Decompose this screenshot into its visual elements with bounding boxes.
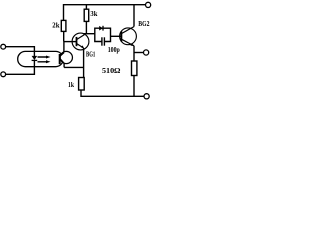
wire 2k bottom lead to BG1 base node	[63, 31, 65, 41]
wire 3k bottom lead	[85, 21, 87, 33]
wire optocoupler emitter lead	[63, 63, 65, 68]
transistor BG1 circle	[72, 33, 89, 50]
optocoupler phototransistor emitter diagonal	[61, 59, 65, 63]
optocoupler body oval	[18, 51, 64, 66]
wire LED cathode down and input bottom lead	[6, 60, 35, 74]
svg-text:1k: 1k	[68, 80, 75, 89]
wire 3k top lead	[85, 5, 87, 10]
resistor 2k	[61, 20, 66, 31]
terminal output mid right	[144, 50, 149, 55]
wire top supply rail with 2k lead corner	[64, 5, 146, 21]
svg-text:BG1: BG1	[86, 51, 96, 58]
light arrow upper	[38, 56, 51, 59]
optocoupler phototransistor collector diagonal	[61, 53, 65, 56]
svg-text:3k: 3k	[90, 9, 98, 18]
LED cathode bar	[32, 59, 38, 61]
wire BG1 base lead	[64, 41, 77, 43]
wire BG1 collector node	[84, 33, 95, 35]
terminal input bottom	[1, 72, 6, 77]
transistor BG1 collector diagonal	[77, 34, 85, 40]
resistor 1k	[79, 78, 85, 91]
svg-text:100p: 100p	[108, 46, 120, 54]
wire RC loop (diode top branch, capacitor bottom branch)	[95, 28, 111, 41]
transistor BG1 emitter diagonal with arrow	[77, 44, 84, 49]
optocoupler phototransistor base bar	[59, 54, 61, 64]
light arrow lower	[38, 60, 51, 63]
wire BG2 emitter down to 510 resistor	[133, 46, 135, 61]
transistor BG2 circle	[120, 28, 137, 45]
diode cathode bar	[102, 26, 104, 31]
resistor 3k	[84, 9, 89, 21]
transistor BG2 base bar	[120, 31, 122, 41]
resistor 510	[132, 61, 137, 76]
wire input top lead and LED anode	[6, 47, 35, 56]
background	[0, 0, 155, 102]
optocoupler phototransistor circle	[60, 51, 72, 63]
terminal output bottom right	[144, 94, 149, 99]
terminal input top	[1, 44, 6, 49]
wire BG1 emitter down to 1k	[83, 48, 85, 78]
capacitor 100p plates	[101, 37, 103, 45]
svg-text:510Ω: 510Ω	[102, 66, 121, 75]
terminal output top right	[146, 2, 151, 7]
diode (in RC loop) triangle	[99, 26, 103, 31]
wire 510 bottom lead	[133, 76, 135, 97]
LED triangle (emitting diode)	[32, 56, 38, 60]
wire BG2 collector to rail	[133, 5, 135, 27]
svg-text:2k: 2k	[52, 21, 60, 30]
wire BG2 base lead	[111, 35, 122, 37]
svg-text:BG2: BG2	[138, 21, 150, 28]
transistor BG2 collector diagonal	[121, 27, 134, 34]
transistor BG1 base bar	[76, 37, 78, 46]
wire optocoupler emitter to 1k node	[64, 66, 84, 68]
wire bottom rail with 1k lead corner	[81, 90, 144, 96]
wire node to optocoupler collector	[63, 42, 65, 53]
wire emitter node to output terminal	[134, 52, 143, 54]
transistor BG2 emitter diagonal with arrow	[121, 39, 134, 46]
